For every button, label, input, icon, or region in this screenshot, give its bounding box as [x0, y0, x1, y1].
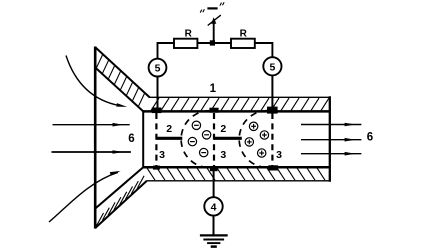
svg-text:6: 6: [128, 133, 134, 145]
svg-text:3: 3: [276, 149, 282, 161]
positive ion symbol 1: [249, 122, 257, 130]
duct inlet end line: [142, 110, 144, 168]
wire: R2 to meter 5b: [255, 43, 273, 57]
svg-text:2: 2: [166, 123, 172, 135]
svg-text:R: R: [185, 29, 193, 40]
wire: meter 4 to ground: [213, 216, 215, 236]
duct top wall (channel 1 upper wall, hatched): [143, 97, 330, 111]
svg-text:4: 4: [211, 201, 217, 213]
resistor R1: [174, 39, 197, 48]
svg-text:R: R: [240, 29, 248, 40]
flow streamline lower (curved, with arrowhead): [49, 171, 121, 222]
negative ion symbol 3: [188, 137, 196, 145]
positive ion symbol 3: [245, 138, 253, 146]
inlet funnel lower wall (hatched): [95, 167, 147, 228]
negative ion cloud boundary (dashed arc): [181, 111, 210, 168]
svg-text:1: 1: [210, 83, 217, 95]
inlet flow arrow lower: [52, 150, 131, 154]
duct bottom wall (channel 1 lower wall, hatched): [143, 167, 330, 181]
wire stub to supply with arrow: [208, 15, 221, 43]
negative ion symbol 2: [202, 131, 210, 139]
svg-text:5: 5: [155, 63, 161, 75]
meter 4 (central microammeter): [204, 197, 222, 215]
negative ion symbol 4: [200, 148, 208, 156]
wire: meter 5a top to resistor R1: [158, 43, 175, 59]
ground symbol: [200, 235, 228, 246]
positive ion symbol 4: [258, 149, 266, 157]
positive ion symbol 2: [260, 131, 268, 139]
outlet flow arrow top: [301, 123, 361, 127]
grid electrode 3b (dashed) with wall pads: [209, 108, 218, 172]
resistor R2: [231, 39, 255, 48]
outlet flow arrow bottom: [301, 152, 361, 156]
wire: center grid pad to meter 4: [213, 171, 215, 198]
svg-text:3: 3: [159, 149, 165, 161]
negative ion symbol 1: [192, 121, 200, 129]
flow streamline upper (curved, with arrowhead): [66, 56, 127, 107]
emitter electrode 2 (first, thick bar): [156, 137, 182, 140]
inlet flow arrow upper: [53, 123, 130, 127]
inlet funnel upper wall (hatched): [95, 47, 150, 112]
meter 5 (right microammeter): [263, 57, 281, 75]
wire: R1 to junction: [197, 42, 231, 44]
grid electrode 3a (dashed) with wall pads: [152, 108, 162, 170]
svg-text:3: 3: [220, 149, 226, 161]
supply polarity label quoted minus: [200, 2, 224, 12]
junction node dot: [210, 40, 215, 45]
duct outlet end line: [329, 96, 331, 182]
inlet funnel mouth line: [94, 47, 97, 229]
grid electrode 3c (dashed) with wall pads: [267, 107, 278, 171]
wire: meter 5b to third grid pad: [271, 75, 273, 107]
positive ion cloud boundary (dashed arc): [239, 111, 267, 168]
svg-text:6: 6: [367, 131, 373, 143]
svg-text:5: 5: [269, 61, 275, 73]
emitter electrode 2 (second, thick bar): [214, 137, 242, 140]
svg-text:2: 2: [220, 123, 226, 135]
meter 5 (left microammeter): [149, 59, 167, 77]
wire: meter 5a to first grid pad: [157, 77, 159, 108]
outlet flow arrow middle: [301, 138, 361, 142]
